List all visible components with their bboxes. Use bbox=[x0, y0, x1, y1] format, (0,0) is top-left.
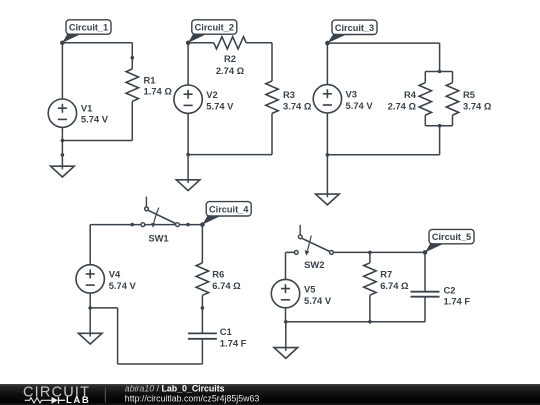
voltage source V1 bbox=[48, 99, 76, 127]
wire circuit5 top right bbox=[333, 251, 425, 253]
logo waveform bbox=[25, 398, 52, 403]
node R7 top junction bbox=[368, 251, 372, 255]
capacitor C2 bbox=[411, 292, 440, 297]
wire circuit2 left leads bbox=[187, 43, 189, 155]
wire circuit1 left leads bbox=[61, 43, 63, 141]
resistor R4 bbox=[419, 83, 431, 115]
wire circuit1 right leads bbox=[131, 43, 133, 141]
node A3 bbox=[325, 41, 330, 46]
resistor R1 bbox=[126, 69, 138, 101]
resistor R5 bbox=[446, 83, 458, 115]
svg-text:1.74 F: 1.74 F bbox=[220, 338, 247, 349]
node R6-C1 junction bbox=[201, 306, 205, 310]
ground circuit3 bbox=[316, 194, 340, 205]
resistor R7 bbox=[364, 263, 376, 295]
node label flag Circuit_5 bbox=[425, 243, 445, 252]
svg-text:6.74 Ω: 6.74 Ω bbox=[380, 280, 409, 291]
svg-text:2.74 Ω: 2.74 Ω bbox=[216, 65, 245, 76]
svg-text:5.74 V: 5.74 V bbox=[346, 100, 374, 111]
svg-text:Circuit_1: Circuit_1 bbox=[69, 23, 108, 33]
svg-text:R2: R2 bbox=[224, 53, 236, 64]
svg-text:Circuit_2: Circuit_2 bbox=[195, 23, 234, 33]
wire to ground circuit5 bbox=[285, 322, 287, 351]
node V5 bottom junction bbox=[284, 320, 288, 324]
ground circuit2 bbox=[176, 180, 200, 191]
wire circuit2 top right bbox=[246, 43, 272, 81]
wire circuit5 top left bbox=[286, 252, 295, 279]
wire circuit4 left bbox=[89, 225, 91, 308]
voltage source V3 bbox=[313, 85, 341, 113]
wire circuit4 top bbox=[90, 224, 202, 226]
wire R6 leads bbox=[201, 225, 203, 308]
voltage source V4 bbox=[76, 265, 104, 293]
svg-text:LAB: LAB bbox=[66, 395, 90, 405]
resistor R2 bbox=[214, 37, 246, 49]
ground circuit5 bbox=[274, 348, 298, 359]
svg-text:V3: V3 bbox=[346, 89, 357, 100]
wire circuit2 bottom bbox=[188, 154, 272, 156]
svg-text:R1: R1 bbox=[144, 74, 156, 85]
svg-text:R3: R3 bbox=[283, 89, 295, 100]
svg-text:C2: C2 bbox=[444, 285, 456, 296]
svg-text:1.74 Ω: 1.74 Ω bbox=[144, 85, 173, 96]
wire parallel bottom bracket bbox=[425, 115, 452, 126]
wire circuit1 bottom bbox=[62, 140, 132, 142]
node B4 bbox=[200, 222, 205, 227]
wire circuit5 left leads bbox=[285, 308, 287, 322]
svg-text:R7: R7 bbox=[380, 269, 392, 280]
wire C2 leads bbox=[424, 252, 426, 322]
wire to ground circuit4 bbox=[89, 308, 91, 337]
node V4 bottom junction bbox=[88, 306, 92, 310]
svg-text:2.74 Ω: 2.74 Ω bbox=[388, 100, 417, 111]
node V3 bottom junction bbox=[326, 153, 330, 157]
node label flag Circuit_4 bbox=[202, 215, 222, 224]
wire C1 top lead bbox=[201, 308, 203, 334]
node V2 bottom junction bbox=[186, 153, 190, 157]
svg-text:5.74 V: 5.74 V bbox=[304, 295, 332, 306]
wire to ground bbox=[61, 141, 63, 170]
node SW1 right junction bbox=[186, 223, 190, 227]
wire circuit3 top bbox=[327, 43, 439, 71]
node SW1 left junction bbox=[130, 223, 134, 227]
switch SW2 bbox=[294, 251, 298, 255]
capacitor C1 bbox=[188, 333, 217, 338]
svg-text:V4: V4 bbox=[109, 268, 121, 279]
node label flag Circuit_3 bbox=[327, 34, 348, 43]
ground circuit1 bbox=[51, 166, 75, 177]
svg-text:3.74 Ω: 3.74 Ω bbox=[283, 100, 312, 111]
wire R7 leads bbox=[369, 252, 371, 321]
wire circuit5 bottom bbox=[286, 321, 425, 323]
svg-text:V2: V2 bbox=[206, 89, 217, 100]
voltage source V5 bbox=[271, 279, 299, 307]
wire circuit2 top left bbox=[188, 42, 214, 44]
svg-text:http://circuitlab.com/cz5r4j85: http://circuitlab.com/cz5r4j85j5w63 bbox=[125, 394, 260, 404]
voltage source V2 bbox=[174, 85, 202, 113]
svg-text:V1: V1 bbox=[81, 103, 92, 114]
node parallel bottom junction bbox=[438, 124, 442, 128]
wire R3 bottom lead bbox=[271, 113, 273, 154]
wire circuit3 left leads bbox=[326, 43, 328, 155]
svg-text:5.74 V: 5.74 V bbox=[206, 100, 234, 111]
svg-text:6.74 Ω: 6.74 Ω bbox=[212, 280, 241, 291]
svg-text:5.74 V: 5.74 V bbox=[81, 113, 109, 124]
node parallel top junction bbox=[438, 70, 442, 74]
wire parallel to bottom bbox=[439, 126, 441, 155]
svg-text:R6: R6 bbox=[212, 269, 224, 280]
svg-text:SW1: SW1 bbox=[148, 233, 168, 244]
svg-text:Circuit_3: Circuit_3 bbox=[335, 23, 374, 33]
node A1 bbox=[60, 41, 65, 46]
resistor R3 bbox=[266, 81, 278, 113]
wire circuit4 bottom loop bbox=[90, 308, 202, 364]
svg-text:C1: C1 bbox=[220, 326, 232, 337]
node V1 bottom junction bbox=[61, 139, 65, 143]
wire parallel top bracket bbox=[425, 72, 452, 83]
svg-text:R5: R5 bbox=[463, 89, 475, 100]
svg-text:3.74 Ω: 3.74 Ω bbox=[463, 100, 492, 111]
node label flag Circuit_1 bbox=[62, 34, 82, 43]
node label flag Circuit_2 bbox=[188, 34, 208, 43]
wire to ground circuit2 bbox=[187, 155, 189, 183]
wire circuit1 top bbox=[62, 42, 132, 44]
wire circuit3 bottom bbox=[327, 154, 439, 156]
svg-text:Circuit_4: Circuit_4 bbox=[209, 204, 249, 214]
svg-text:R4: R4 bbox=[404, 89, 417, 100]
node B5 bbox=[423, 250, 428, 255]
svg-text:V5: V5 bbox=[304, 284, 315, 295]
node R7 bottom junction bbox=[368, 320, 372, 324]
svg-text:abira10 / Lab_0_Circuits: abira10 / Lab_0_Circuits bbox=[125, 383, 225, 393]
node ground terminal bbox=[61, 153, 65, 157]
svg-text:1.74 F: 1.74 F bbox=[444, 296, 471, 307]
wire to ground circuit3 bbox=[326, 155, 328, 198]
node A2 bbox=[186, 41, 191, 46]
node R1 top junction bbox=[131, 56, 135, 60]
footer separator bbox=[104, 388, 106, 403]
svg-text:SW2: SW2 bbox=[304, 259, 324, 270]
svg-text:5.74 V: 5.74 V bbox=[109, 280, 137, 291]
switch SW1 bbox=[141, 223, 145, 227]
resistor R6 bbox=[196, 263, 208, 295]
ground circuit4 bbox=[78, 333, 102, 344]
svg-text:Circuit_5: Circuit_5 bbox=[432, 232, 471, 242]
